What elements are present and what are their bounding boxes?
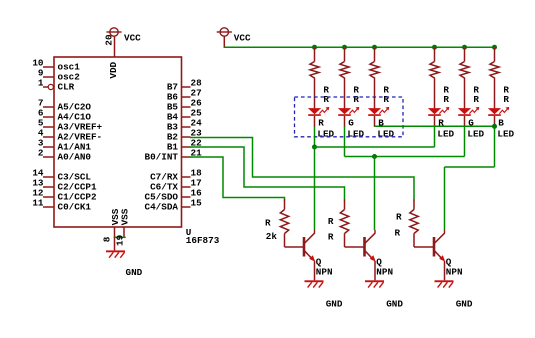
svg-text:B0/INT: B0/INT xyxy=(145,151,179,162)
wire VCC rail xyxy=(224,46,494,48)
svg-text:R: R xyxy=(328,232,334,243)
LED D2 (G) xyxy=(338,107,359,127)
wire: pin 21 B0/INT to R7 (base resistor 1) xyxy=(190,157,285,201)
wire: G net down to Q2 collector xyxy=(374,157,376,231)
pin 23 B2 xyxy=(167,128,202,143)
svg-text:2: 2 xyxy=(38,148,44,159)
resistor R3 (LED series) xyxy=(370,48,379,108)
resistor R5 (LED series) xyxy=(460,48,469,108)
svg-text:VCC: VCC xyxy=(124,32,141,43)
dashed box around RGB LED module xyxy=(295,97,404,137)
node G net junction xyxy=(372,154,377,159)
pin 10 osc1 xyxy=(32,58,80,73)
svg-text:LED: LED xyxy=(497,129,514,140)
ground (emitter Q2) xyxy=(365,280,384,287)
wire: LED2 cathode down to G net xyxy=(344,127,346,157)
svg-text:16F873: 16F873 xyxy=(186,235,220,246)
pin 12 C1/CCP2 xyxy=(32,188,97,203)
IC U1 16F873 body outline xyxy=(54,57,182,227)
pin 17 C6/TX xyxy=(150,178,202,193)
svg-text:2k: 2k xyxy=(266,231,278,242)
svg-text:CLR: CLR xyxy=(58,81,75,92)
transistor Q1 NPN xyxy=(285,230,316,280)
pin 22 B1 xyxy=(167,138,202,153)
pin 24 B3 xyxy=(167,118,202,133)
LED D5 (G) xyxy=(458,107,479,127)
LED D6 (B) xyxy=(488,107,509,127)
svg-text:VDD: VDD xyxy=(108,61,119,78)
pin 8 VSS stub xyxy=(114,227,116,238)
wire: G net horizontal (LED2 to LED5) xyxy=(345,156,465,158)
svg-text:GND: GND xyxy=(126,267,143,278)
svg-text:NPN: NPN xyxy=(376,266,393,277)
svg-text:C4/SDA: C4/SDA xyxy=(145,201,179,212)
pin 4 A2/VREF- xyxy=(38,128,102,143)
svg-text:C0/CK1: C0/CK1 xyxy=(58,201,92,212)
pin 11 C0/CK1 xyxy=(32,198,91,213)
junction dot column 2 on VCC rail xyxy=(342,45,347,50)
wire: B net horizontal (LED3 to LED6) xyxy=(375,125,495,127)
node B net junction (col6) xyxy=(492,124,497,129)
pin 28 B7 xyxy=(167,78,202,93)
svg-text:R: R xyxy=(353,94,359,105)
wire: LED5 cathode down xyxy=(464,127,466,157)
pin 9 osc2 xyxy=(38,68,80,83)
LED D4 (R) xyxy=(428,107,449,127)
svg-text:R: R xyxy=(318,117,324,128)
svg-text:11: 11 xyxy=(32,198,44,209)
wire: B net left toward Q3 xyxy=(445,166,495,168)
pin 1 CLR xyxy=(38,78,75,93)
pin 20 VDD stub xyxy=(114,37,116,57)
ground (emitter Q3) xyxy=(435,280,454,287)
svg-text:19: 19 xyxy=(115,234,126,246)
svg-text:G: G xyxy=(348,117,354,128)
resistor R7 (base resistor) xyxy=(280,200,288,248)
resistor R2 (LED series) xyxy=(340,48,349,108)
svg-text:R: R xyxy=(396,212,402,223)
transistor Q3 NPN xyxy=(414,230,445,280)
junction dot column 4 on VCC rail xyxy=(432,45,437,50)
pin 7 A5/C2O xyxy=(38,98,91,113)
ground (emitter Q1) xyxy=(305,280,324,287)
pin 21 B0/INT xyxy=(145,148,203,163)
wire joining VSS pins xyxy=(114,236,126,238)
svg-text:R: R xyxy=(443,94,449,105)
svg-text:NPN: NPN xyxy=(316,266,333,277)
resistor R4 (LED series) xyxy=(430,48,439,108)
pin 19 VSS stub xyxy=(123,227,125,238)
svg-text:GND: GND xyxy=(386,298,403,309)
resistor R1 (LED series) xyxy=(310,48,319,108)
ground (IC VSS) xyxy=(106,250,125,257)
pin 5 A3/VREF+ xyxy=(38,118,103,133)
wire: B net down from LED6 xyxy=(494,126,496,167)
wire: R net down to Q1 collector xyxy=(314,147,316,230)
pin 25 B4 xyxy=(167,108,202,123)
svg-text:VSS: VSS xyxy=(119,208,130,225)
LED D3 (B) xyxy=(368,107,389,127)
svg-text:R: R xyxy=(383,94,389,105)
svg-text:NPN: NPN xyxy=(446,266,463,277)
wire: LED1 cathode down to R net xyxy=(314,127,316,148)
pin 2 A0/AN0 xyxy=(38,148,91,163)
svg-text:R: R xyxy=(503,94,509,105)
svg-text:VCC: VCC xyxy=(234,32,251,43)
svg-text:R: R xyxy=(395,228,401,239)
junction dot column 6 on VCC rail xyxy=(492,45,497,50)
LED D1 (R) xyxy=(308,107,329,127)
power symbol VCC (LED rail) xyxy=(217,28,232,36)
pin 18 C7/RX xyxy=(150,168,202,183)
wire: B net down to Q3 collector xyxy=(444,167,446,230)
pin 26 B5 xyxy=(167,98,202,113)
wire: LED4 cathode down xyxy=(434,127,436,148)
node R net junction (col1) xyxy=(312,145,317,150)
svg-text:LED: LED xyxy=(347,129,364,140)
wire: pin 23 B2 to R9 (base resistor 3) xyxy=(190,138,414,201)
svg-text:R: R xyxy=(265,218,271,229)
svg-text:GND: GND xyxy=(456,298,473,309)
pin 13 C2/CCP1 xyxy=(32,178,97,193)
power symbol VCC (IC VDD) xyxy=(106,28,121,36)
svg-text:1: 1 xyxy=(38,78,44,89)
svg-text:B: B xyxy=(498,117,504,128)
svg-text:A0/AN0: A0/AN0 xyxy=(58,151,92,162)
svg-text:R: R xyxy=(473,94,479,105)
svg-text:LED: LED xyxy=(317,129,334,140)
resistor R8 (base resistor) xyxy=(340,200,348,248)
pin 27 B6 xyxy=(167,88,202,103)
svg-text:15: 15 xyxy=(191,198,203,209)
svg-text:R: R xyxy=(323,94,329,105)
wire VCC down to rail xyxy=(223,36,225,48)
junction dot column 1 on VCC rail xyxy=(312,45,317,50)
svg-text:LED: LED xyxy=(467,129,484,140)
resistor R9 (base resistor) xyxy=(410,200,418,248)
transistor Q2 NPN xyxy=(345,230,376,280)
svg-text:LED: LED xyxy=(377,129,394,140)
pin 3 A1/AN1 xyxy=(38,138,91,153)
pin 16 C5/SDO xyxy=(145,188,203,203)
junction dot column 5 on VCC rail xyxy=(462,45,467,50)
resistor R6 (LED series) xyxy=(490,48,499,108)
pin 15 C4/SDA xyxy=(145,198,203,213)
pin 14 C3/SCL xyxy=(32,168,91,183)
pin 6 A4/C1O xyxy=(38,108,91,123)
svg-text:GND: GND xyxy=(326,298,343,309)
svg-text:LED: LED xyxy=(437,129,454,140)
wire: pin 22 B1 to R8 (base resistor 2) xyxy=(190,147,345,201)
svg-text:8: 8 xyxy=(102,236,113,242)
junction dot column 3 on VCC rail xyxy=(372,45,377,50)
wire: R net horizontal (LED1 to LED4) xyxy=(315,146,435,148)
svg-text:R: R xyxy=(328,216,334,227)
wire VSS to ground xyxy=(114,237,116,250)
